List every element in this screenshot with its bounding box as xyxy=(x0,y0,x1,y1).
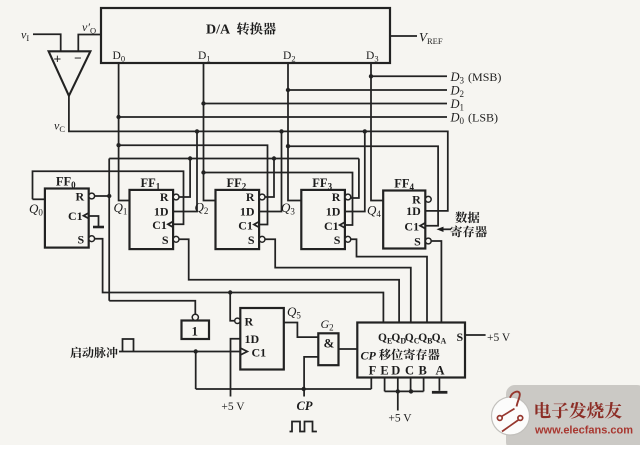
svg-text:1D: 1D xyxy=(240,205,255,219)
svg-text:E: E xyxy=(380,364,388,378)
svg-text:1: 1 xyxy=(192,324,199,339)
svg-text:CP: CP xyxy=(361,349,377,363)
svg-text:1D: 1D xyxy=(326,205,341,219)
svg-text:B: B xyxy=(419,364,427,378)
svg-text:1D: 1D xyxy=(406,204,421,218)
svg-text:R: R xyxy=(246,190,255,204)
svg-text:www.elecfans.com: www.elecfans.com xyxy=(534,425,633,437)
svg-text:C1: C1 xyxy=(68,209,83,223)
svg-text:+5 V: +5 V xyxy=(487,332,511,344)
svg-text:S: S xyxy=(162,233,169,247)
svg-text:S: S xyxy=(78,233,85,247)
svg-text:C1: C1 xyxy=(152,218,167,232)
svg-text:S: S xyxy=(334,233,341,247)
svg-text:C1: C1 xyxy=(324,219,339,233)
svg-text:+5 V: +5 V xyxy=(388,413,412,425)
svg-text:C: C xyxy=(405,364,414,378)
svg-text:D: D xyxy=(391,364,400,378)
svg-text:R: R xyxy=(332,190,341,204)
svg-text:S: S xyxy=(248,233,255,247)
svg-text:CP: CP xyxy=(297,399,313,413)
svg-text:S: S xyxy=(414,235,421,249)
svg-text:1D: 1D xyxy=(154,205,169,219)
svg-text:R: R xyxy=(245,315,254,329)
svg-text:A: A xyxy=(435,364,444,378)
svg-text:R: R xyxy=(160,190,169,204)
svg-text:S: S xyxy=(457,330,464,344)
svg-text:R: R xyxy=(76,190,85,204)
svg-text:D/A: D/A xyxy=(206,23,231,38)
svg-text:&: & xyxy=(324,336,335,351)
svg-text:C1: C1 xyxy=(252,346,267,360)
svg-text:−: − xyxy=(74,51,82,66)
svg-text:C1: C1 xyxy=(238,218,253,232)
svg-text:+5 V: +5 V xyxy=(221,401,245,413)
svg-text:1D: 1D xyxy=(245,332,260,346)
svg-text:+: + xyxy=(54,52,62,67)
svg-text:C1: C1 xyxy=(404,220,419,234)
svg-text:D0(LSB): D0(LSB) xyxy=(450,111,499,127)
svg-text:F: F xyxy=(369,364,377,378)
